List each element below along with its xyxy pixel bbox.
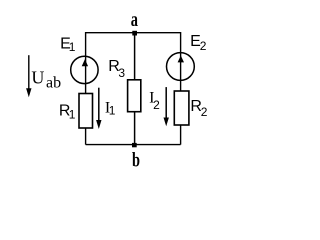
EMF source E1 arrowhead — [82, 59, 88, 66]
svg-text:U: U — [31, 68, 44, 88]
svg-text:a: a — [131, 7, 139, 31]
svg-text:1: 1 — [69, 108, 76, 122]
wire middle branch vertical — [134, 33, 136, 145]
svg-text:b: b — [132, 148, 140, 172]
current arrow I1 — [98, 88, 100, 122]
svg-text:1: 1 — [69, 40, 76, 54]
wire right branch vertical — [180, 32, 182, 145]
svg-text:ab: ab — [46, 74, 61, 91]
svg-text:2: 2 — [200, 39, 207, 53]
svg-text:2: 2 — [201, 105, 208, 119]
wire bottom horizontal b-net — [86, 144, 181, 146]
current arrow I2 — [165, 87, 167, 119]
svg-text:2: 2 — [153, 98, 160, 112]
node b junction dot — [132, 143, 137, 147]
EMF source E1 circle — [71, 56, 98, 83]
resistor R3 body — [128, 80, 141, 112]
voltage arrow U_ab — [28, 55, 30, 90]
wire left branch vertical — [85, 32, 87, 145]
resistor R1 body — [79, 94, 93, 129]
EMF source E2 circle — [167, 53, 195, 81]
wire top horizontal a-net — [86, 32, 181, 34]
svg-text:1: 1 — [109, 104, 116, 118]
node a junction dot — [132, 31, 137, 36]
resistor R2 body — [174, 91, 189, 125]
svg-text:3: 3 — [118, 66, 125, 80]
EMF source E2 arrowhead — [178, 56, 184, 63]
